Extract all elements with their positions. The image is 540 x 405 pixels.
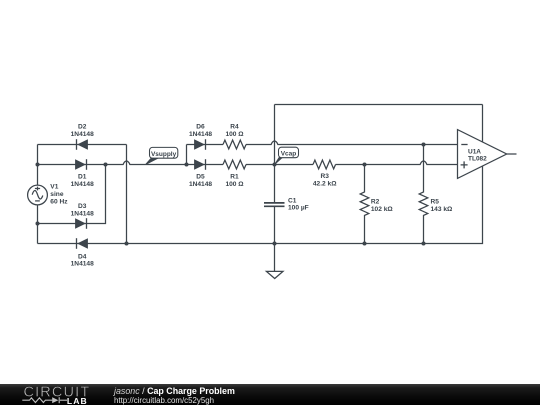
svg-text:jasonc / Cap Charge Problem: jasonc / Cap Charge Problem xyxy=(113,386,235,396)
svg-text:LAB: LAB xyxy=(67,396,88,405)
svg-text:http://circuitlab.com/c52y5gh: http://circuitlab.com/c52y5gh xyxy=(114,396,214,405)
